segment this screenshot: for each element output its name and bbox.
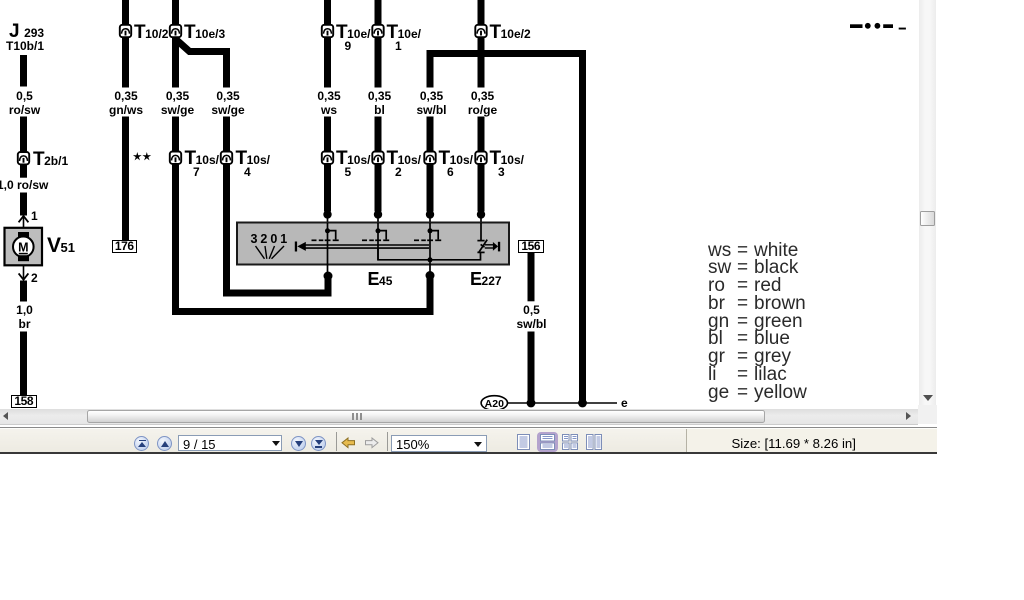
wire column T10/2 mid <box>122 38 129 88</box>
page number field <box>178 435 282 451</box>
wire column ro/ge top <box>478 0 485 26</box>
wire column T10e/3 label gap lower <box>172 117 179 153</box>
wire label 0,5 ro/sw <box>9 89 40 118</box>
single page layout icon <box>517 434 531 450</box>
connector label T10s/4 <box>236 148 270 170</box>
connector T10e/2 <box>475 25 486 37</box>
node dot sw/bl on ground line <box>527 399 536 408</box>
scrollbar corner <box>918 405 937 424</box>
connector label T10s/7 <box>185 148 219 170</box>
connector label T2b/1 <box>33 149 68 171</box>
wire column ws to switch <box>324 164 331 211</box>
connector label T10/2 <box>134 22 168 44</box>
star marks <box>133 152 142 160</box>
wire label 0,35 gn/ws <box>109 89 143 118</box>
terminal box 156 <box>518 240 544 253</box>
wire column bl to switch <box>375 164 382 211</box>
motor label V51 <box>47 234 75 258</box>
continuous layout icon (active) <box>537 432 558 452</box>
wire label 0,35 sw/ge (right) <box>211 89 244 118</box>
A20 ellipse <box>481 396 507 411</box>
wire J293 column segment 6 <box>20 332 27 396</box>
wire column T10s/7 long down <box>172 164 179 315</box>
vertical scrollbar down arrow <box>923 395 933 401</box>
wire column bl lower <box>375 117 382 153</box>
E45 left pin wire <box>325 276 332 297</box>
wire column sw/bl (T10s/6) from branch <box>427 53 434 88</box>
node dot T10s/5 <box>323 210 331 218</box>
wire label 0,35 sw/ge (left) <box>161 89 194 118</box>
facing layout icon <box>562 434 578 450</box>
wire label 0,5 sw/bl <box>516 303 546 332</box>
connector label T10s/3 <box>490 148 524 170</box>
wire label 0,35 sw/bl <box>416 89 446 118</box>
switch position digits 3201 <box>251 232 288 246</box>
wire column T10/2 top <box>122 0 129 26</box>
pin 2 arrow out of V51 <box>23 265 25 278</box>
status toolbar <box>0 427 937 454</box>
horizontal scrollbar right arrow <box>906 412 911 420</box>
switch label E45 <box>368 269 393 290</box>
pin number 1 <box>31 209 38 223</box>
wire column T10s/4 upper <box>223 52 230 88</box>
ground designation e <box>621 396 628 410</box>
branch wire to sw/ge column <box>176 39 231 52</box>
wire column ws mid <box>324 38 331 88</box>
bus double line with left arrow <box>295 242 297 252</box>
dogleg wire T10s/4 to E45 left pin <box>223 290 332 297</box>
size panel <box>686 429 937 452</box>
terminal box 176 <box>112 240 137 253</box>
switch label E227 <box>470 269 502 290</box>
node dot T10s/2 <box>374 210 382 218</box>
horizontal scrollbar grip <box>352 413 354 420</box>
wire column ws lower <box>324 117 331 153</box>
wire column sw/bl lower <box>427 117 434 153</box>
ui chrome layer <box>0 0 1024 1</box>
wire column sw/bl to switch <box>427 164 434 211</box>
wire column ws top <box>324 0 331 26</box>
connector T10/2 <box>120 25 131 37</box>
wire label 0,35 ro/ge <box>468 89 497 118</box>
colour code legend <box>708 242 807 402</box>
ground line A20 <box>508 402 617 404</box>
facing continuous layout icon <box>586 434 602 450</box>
separator <box>387 432 388 451</box>
terminal box 158 <box>11 395 37 409</box>
wire J293 column segment 3 <box>20 165 27 178</box>
wire label 1,0 br <box>16 303 33 332</box>
wire column T10s/4 down <box>223 164 230 293</box>
top right tick marks <box>850 24 863 28</box>
connector label T10e/9 <box>336 22 370 44</box>
horizontal scrollbar left arrow <box>3 412 8 420</box>
wire label 1,0 ro/sw <box>0 178 48 192</box>
switch contact 3 (sw/bl) <box>414 223 441 272</box>
wire column ro/ge to switch <box>478 164 485 211</box>
wire from 156 box down <box>528 253 535 301</box>
connector T10s/2 <box>372 152 383 164</box>
wire column ro/ge lower <box>478 117 485 153</box>
vertical scrollbar thumb <box>920 211 935 227</box>
connector T2b/1 <box>18 152 29 164</box>
fan symbol 3201 <box>256 246 285 259</box>
long wire right column down to A20 <box>579 50 586 403</box>
horizontal scrollbar thumb <box>87 410 765 424</box>
connector label T10s/5 <box>336 148 370 170</box>
switch unit E45/E227 grey box <box>237 223 509 265</box>
switch E227 <box>477 223 493 252</box>
wire J293 column segment 5 <box>20 281 27 302</box>
wire J293 column segment 1 <box>20 55 27 87</box>
wire column bl mid <box>375 38 382 88</box>
vertical scrollbar track <box>919 0 936 405</box>
motor V51 <box>5 228 43 265</box>
wire column T10/2 lower <box>122 117 129 241</box>
switch contact 1 (ws) <box>312 223 339 272</box>
connector T10s/6 <box>424 152 435 164</box>
node dot T10s/3 <box>477 210 485 218</box>
separator <box>336 432 337 451</box>
branch wire T10e/2 to right bus <box>427 50 587 57</box>
wire column T10e/3 top <box>172 0 179 26</box>
svg-text:M: M <box>18 240 28 254</box>
connector T10s/4 <box>221 152 232 164</box>
first page button <box>134 436 149 451</box>
connector T10e/1 <box>372 25 383 37</box>
wire label 0,35 ws <box>317 89 340 118</box>
previous page button <box>157 436 172 451</box>
wire J293 column segment 2 <box>20 117 27 153</box>
wire column T10s/4 mid <box>223 117 230 153</box>
lower link line inside box <box>378 248 481 260</box>
connector label T10e/1 <box>387 22 421 44</box>
horizontal scrollbar track <box>0 409 918 425</box>
E45 right pin wire <box>427 276 434 316</box>
E45 left pin node <box>324 272 333 281</box>
node dot T10s/6 <box>426 210 434 218</box>
connector T10s/3 <box>475 152 486 164</box>
pin number 2 <box>31 271 38 285</box>
connector label T10e/2 <box>490 22 531 44</box>
last page button <box>311 436 326 451</box>
forward arrow (grey) <box>364 437 379 449</box>
connector T10e/3 <box>170 25 181 37</box>
wire column ro/ge mid crossing branch <box>478 38 485 88</box>
connector T10e/9 <box>322 25 333 37</box>
connector label T10e/3 <box>184 22 225 44</box>
back arrow (gold) <box>341 437 356 449</box>
switch contact 2 (bl) <box>362 223 389 260</box>
wire J293 column segment 4 <box>20 193 27 216</box>
node dot right column on ground line <box>578 399 587 408</box>
connector T10s/5 <box>322 152 333 164</box>
wire column T10e/3 below connector <box>172 38 179 88</box>
connector label T10s/2 <box>387 148 421 170</box>
text labels layer <box>0 0 1024 1</box>
wire column bl top <box>375 0 382 26</box>
next page button <box>291 436 306 451</box>
relay J293 label <box>9 21 44 43</box>
zoom field <box>391 435 487 452</box>
connector T10s/7 <box>170 152 181 164</box>
E45 right pin node <box>426 271 435 280</box>
connector label T10s/6 <box>439 148 473 170</box>
wire label 0,35 bl <box>368 89 391 118</box>
pin 1 arrow into V51 <box>19 216 29 222</box>
dogleg wire T10s/7 to E45 right pin <box>172 308 434 315</box>
